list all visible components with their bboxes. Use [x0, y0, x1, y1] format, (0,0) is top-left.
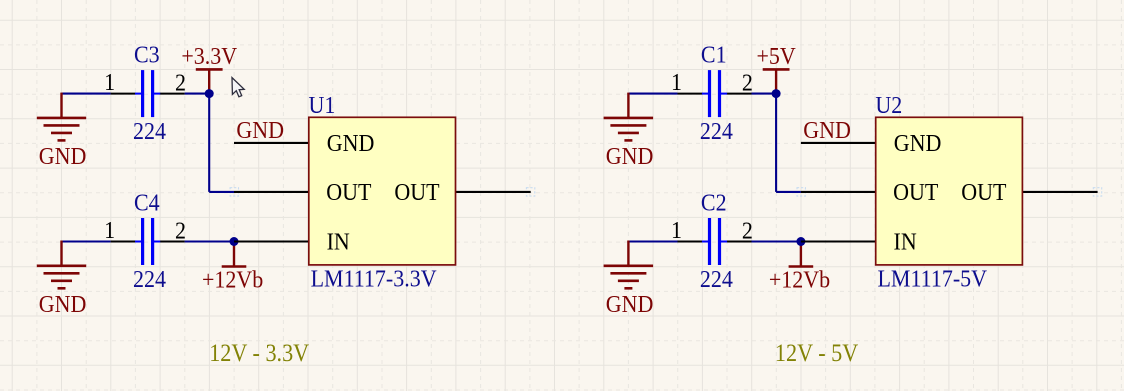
svg-text:LM1117-3.3V: LM1117-3.3V: [311, 266, 437, 293]
svg-text:GND: GND: [606, 143, 654, 170]
svg-text:U1: U1: [309, 92, 336, 119]
svg-text:12V - 3.3V: 12V - 3.3V: [209, 340, 309, 367]
svg-text:GND: GND: [39, 143, 87, 170]
svg-text:1: 1: [104, 69, 115, 96]
svg-text:OUT: OUT: [893, 179, 938, 206]
svg-text:GND: GND: [894, 130, 942, 157]
svg-text:C3: C3: [134, 41, 160, 68]
svg-text:GND: GND: [236, 117, 284, 144]
svg-text:IN: IN: [327, 228, 350, 255]
svg-text:U2: U2: [875, 92, 902, 119]
svg-text:OUT: OUT: [326, 179, 371, 206]
svg-text:+5V: +5V: [756, 43, 795, 70]
svg-text:GND: GND: [803, 117, 851, 144]
svg-text:1: 1: [671, 217, 682, 244]
svg-text:C4: C4: [134, 189, 160, 216]
svg-text:224: 224: [133, 266, 166, 293]
svg-text:OUT: OUT: [961, 179, 1006, 206]
svg-text:12V - 5V: 12V - 5V: [775, 340, 858, 367]
svg-text:2: 2: [742, 217, 753, 244]
svg-text:OUT: OUT: [394, 179, 439, 206]
svg-text:+12Vb: +12Vb: [769, 266, 830, 293]
svg-text:224: 224: [133, 118, 166, 145]
svg-text:LM1117-5V: LM1117-5V: [878, 266, 988, 293]
svg-text:GND: GND: [606, 291, 654, 318]
svg-text:C1: C1: [701, 41, 727, 68]
svg-text:2: 2: [175, 69, 186, 96]
svg-text:GND: GND: [327, 130, 375, 157]
svg-text:1: 1: [671, 69, 682, 96]
svg-text:GND: GND: [39, 291, 87, 318]
svg-text:224: 224: [700, 118, 733, 145]
svg-text:1: 1: [104, 217, 115, 244]
svg-text:IN: IN: [894, 228, 917, 255]
svg-text:+3.3V: +3.3V: [181, 43, 237, 70]
svg-text:2: 2: [175, 217, 186, 244]
svg-text:+12Vb: +12Vb: [202, 266, 263, 293]
svg-text:C2: C2: [701, 189, 727, 216]
svg-text:2: 2: [742, 69, 753, 96]
svg-text:224: 224: [700, 266, 733, 293]
